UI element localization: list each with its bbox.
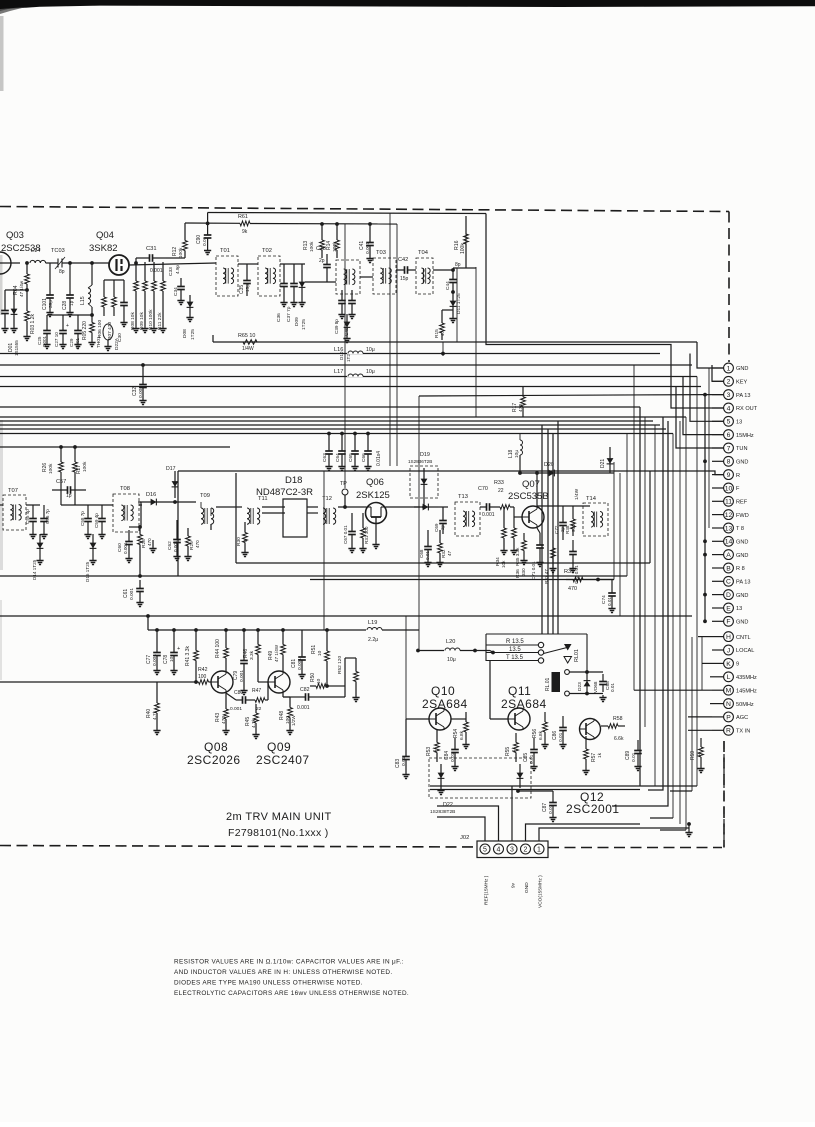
junction (320, 222, 324, 226)
capacitor C59 4p (94, 508, 106, 532)
svg-text:47 1/4w: 47 1/4w (19, 280, 24, 297)
ground (348, 546, 355, 553)
resistor R49 47 1/4W (268, 635, 285, 664)
svg-text:990: 990 (571, 524, 576, 532)
ground (634, 764, 641, 771)
svg-text:2: 2 (727, 379, 731, 386)
svg-text:0.001: 0.001 (129, 588, 135, 600)
svg-text:D15 1T25: D15 1T25 (85, 561, 90, 582)
wire (490, 651, 493, 653)
svg-text:B: B (726, 565, 731, 572)
wire (195, 676, 197, 682)
diode D19b (414, 504, 438, 511)
wire (101, 505, 103, 508)
wire (301, 264, 303, 270)
svg-text:C35: C35 (239, 285, 245, 294)
wire (32, 505, 34, 508)
wire (648, 417, 663, 790)
svg-text:D17: D17 (166, 466, 176, 472)
ground (325, 464, 332, 471)
resistor R10 100k (148, 272, 157, 330)
resistor R40 4.7k (146, 688, 159, 728)
ground (43, 342, 50, 349)
wire (323, 471, 325, 630)
wire (0, 575, 627, 577)
wire (712, 594, 724, 596)
svg-text:R: R (726, 728, 731, 735)
svg-text:10μ: 10μ (447, 657, 456, 663)
svg-text:6.8k: 6.8k (459, 730, 465, 740)
capacitor C85 0.01 (523, 738, 538, 764)
wire (262, 512, 285, 514)
junction (703, 619, 707, 623)
pin 12 FWD (724, 510, 749, 520)
wire (293, 264, 295, 270)
svg-text:1S2838T2B: 1S2838T2B (430, 809, 455, 815)
wire (562, 536, 564, 540)
svg-text:D20: D20 (544, 462, 554, 468)
wire (712, 447, 724, 449)
svg-text:F2798101(No.1xxx ): F2798101(No.1xxx ) (228, 827, 329, 839)
svg-text:L18: L18 (508, 449, 514, 458)
wire (243, 630, 245, 648)
capacitor C27 10 (electrolytic) (54, 322, 69, 347)
capacitor C88 0.01 (599, 674, 615, 692)
wire (166, 257, 185, 259)
wire (139, 504, 142, 506)
dashed border bottom right (548, 847, 722, 849)
wire (563, 472, 614, 474)
svg-text:R 8: R 8 (736, 566, 745, 572)
wire (185, 222, 240, 224)
wire (712, 434, 724, 436)
wire (162, 262, 164, 272)
svg-text:D22: D22 (443, 802, 453, 808)
svg-text:10: 10 (316, 678, 322, 684)
capacitor C25 0.001 (37, 322, 51, 347)
wire (236, 562, 650, 564)
mixer D18 ND487C2-3R (256, 475, 313, 537)
pin 10 F (724, 483, 740, 493)
dashed border lower right vertical (723, 741, 725, 848)
wire (0, 386, 701, 388)
resistor R46 3.3k (243, 635, 260, 664)
ground (240, 688, 247, 695)
wire (704, 395, 706, 622)
resistor R17 470 (512, 387, 525, 418)
svg-text:100k: 100k (309, 241, 315, 252)
ground (520, 558, 527, 565)
wire (207, 213, 209, 224)
inductor L15 (80, 285, 92, 307)
label 2SC2538 (1, 243, 41, 254)
trimmer capacitor TC03 (51, 248, 66, 275)
capacitor C66 (361, 441, 372, 464)
connector J02 pin 3 (507, 844, 517, 854)
wire (0, 446, 230, 448)
svg-text:T 8: T 8 (736, 526, 744, 532)
wire (91, 307, 93, 315)
svg-text:C79: C79 (233, 671, 239, 680)
wire (62, 315, 64, 322)
resistor R35 3.3k (512, 518, 520, 566)
wire (144, 300, 146, 326)
svg-text:R48: R48 (279, 711, 285, 720)
ground (10, 326, 17, 333)
ground (74, 342, 81, 349)
diode D09 1T25 (294, 270, 307, 330)
wire (418, 396, 420, 650)
pin 1 GND (724, 363, 749, 373)
svg-text:+: + (177, 646, 180, 652)
transformer T07 (3, 488, 26, 530)
svg-text:R42: R42 (198, 667, 208, 673)
ground (88, 340, 95, 347)
ground (549, 815, 556, 822)
dashed border bottom left (0, 846, 477, 848)
capacitor C24 0.001 (0, 298, 9, 326)
capacitor C34 (173, 278, 185, 298)
wire (650, 471, 724, 475)
svg-text:0.001: 0.001 (297, 705, 310, 711)
pin E 13 (724, 603, 743, 613)
wire (60, 480, 62, 490)
ground (697, 766, 704, 773)
svg-text:330: 330 (521, 568, 526, 576)
wire (362, 513, 364, 520)
resistor R11 22k (157, 272, 166, 330)
svg-text:C33: C33 (168, 267, 174, 276)
wire (712, 420, 724, 422)
svg-text:T12: T12 (322, 496, 332, 502)
wire (710, 676, 712, 678)
label 2SC2407 (256, 753, 310, 767)
svg-text:1T25: 1T25 (301, 319, 307, 330)
svg-text:C67 0.01: C67 0.01 (343, 525, 348, 544)
svg-text:C90: C90 (196, 235, 202, 244)
junction (703, 553, 707, 557)
svg-text:VD68: VD68 (593, 681, 598, 693)
svg-text:L17: L17 (334, 369, 343, 375)
wire (156, 630, 158, 640)
wire (712, 689, 724, 691)
svg-text:470: 470 (518, 404, 524, 412)
svg-text:1p: 1p (66, 493, 72, 499)
wire (685, 417, 687, 830)
svg-text:+: + (66, 323, 69, 329)
wire (5, 289, 27, 291)
svg-text:D09: D09 (294, 317, 300, 326)
capacitor C32 0.001 (132, 374, 147, 398)
wire (338, 506, 364, 508)
svg-text:TUN: TUN (736, 446, 748, 452)
svg-text:C58 7p: C58 7p (80, 511, 85, 526)
transistor Q09 2SC2407 (268, 671, 290, 693)
svg-text:H: H (726, 634, 731, 641)
resistor R53 1k (426, 733, 439, 762)
wire (712, 716, 724, 718)
capacitor C63 (322, 441, 333, 464)
wire (0, 420, 653, 422)
ground (298, 300, 305, 307)
junction (335, 222, 339, 226)
wire (526, 824, 641, 841)
transformer T14 (583, 496, 608, 536)
resistor R65 10 1/4W (238, 333, 257, 352)
svg-text:TP: TP (340, 481, 347, 487)
capacitor C69 2p (434, 510, 447, 534)
wire (341, 290, 343, 292)
wire (541, 425, 543, 634)
wire (708, 368, 710, 528)
wire (712, 367, 724, 369)
pin L 435MHz (724, 672, 757, 682)
svg-text:12: 12 (725, 512, 733, 519)
svg-text:6.8k: 6.8k (538, 730, 544, 740)
svg-text:GND: GND (736, 593, 748, 599)
ground (372, 542, 379, 549)
ground (36, 558, 43, 565)
wire (430, 789, 640, 791)
svg-text:C44: C44 (445, 281, 451, 290)
wire (0, 364, 692, 366)
title 2m TRV MAIN UNIT (226, 811, 332, 823)
capacitor C79 0.001 (233, 648, 248, 682)
wire (216, 506, 230, 508)
svg-text:0.001: 0.001 (138, 386, 144, 398)
ground (549, 566, 556, 573)
pin 3 PA 13 (724, 390, 751, 400)
svg-text:L14: L14 (31, 248, 40, 254)
junction (353, 432, 357, 436)
wire (562, 506, 564, 512)
resistor R30 0 (236, 525, 249, 550)
wire (326, 672, 328, 686)
wire (0, 428, 666, 430)
wire (712, 729, 724, 731)
ground (280, 300, 287, 307)
wire (258, 681, 268, 683)
svg-text:1k: 1k (597, 752, 603, 758)
svg-text:0.001: 0.001 (42, 335, 47, 347)
wire (212, 335, 214, 342)
wire (60, 490, 62, 505)
svg-text:T09: T09 (200, 493, 210, 499)
diode (in D22) b (517, 764, 524, 788)
ground (125, 556, 132, 563)
svg-text:C80: C80 (234, 690, 243, 696)
label Q03 (6, 230, 24, 241)
wire (344, 686, 346, 697)
ground (66, 310, 73, 317)
svg-text:1/4W: 1/4W (242, 346, 254, 352)
svg-text:2SC2001: 2SC2001 (566, 802, 620, 816)
svg-text:R40: R40 (146, 709, 152, 718)
capacitor C40 4p (344, 292, 356, 336)
label C33 4.9p (168, 265, 180, 276)
wire (113, 280, 115, 288)
wire (208, 213, 486, 214)
wire (511, 786, 513, 841)
wire (611, 580, 613, 584)
resistor R16 100k (454, 216, 468, 262)
ground (89, 558, 96, 565)
wire (613, 462, 615, 580)
wire (456, 268, 458, 342)
junction (703, 393, 707, 397)
wire (283, 264, 285, 270)
dashed border right (728, 212, 730, 363)
capacitor C58 7p (80, 508, 92, 532)
wire (0, 353, 660, 355)
wire (552, 434, 554, 635)
wire (91, 263, 93, 285)
junction (596, 578, 600, 582)
capacitor C37 7p (286, 270, 298, 322)
svg-text:435MHz: 435MHz (736, 675, 757, 681)
wire (0, 376, 697, 378)
svg-text:D08: D08 (182, 329, 188, 338)
svg-text:4.9p: 4.9p (175, 265, 180, 274)
svg-text:1T25: 1T25 (190, 329, 196, 340)
wire (539, 828, 689, 841)
junction (155, 628, 159, 632)
capacitor C35 15p (239, 268, 251, 296)
junction (422, 505, 426, 509)
wire (257, 664, 259, 682)
ground (1, 326, 8, 333)
svg-text:A: A (726, 552, 731, 559)
svg-text:T08: T08 (120, 486, 130, 492)
ground (599, 695, 606, 702)
wire (691, 637, 693, 791)
svg-text:0.01x4: 0.01x4 (376, 451, 382, 466)
svg-text:22: 22 (256, 706, 262, 712)
wire (103, 280, 105, 288)
transistor Q08 2SC2026 (211, 671, 233, 693)
junction (325, 684, 329, 688)
inductor L16 10u (334, 347, 375, 354)
wire (26, 504, 40, 506)
ground (132, 326, 139, 333)
svg-text:C64: C64 (335, 453, 341, 462)
svg-text:R10 100k: R10 100k (148, 309, 154, 330)
wire (225, 693, 227, 700)
ground (338, 312, 355, 343)
svg-text:470: 470 (568, 586, 577, 592)
capacitor C65 (348, 441, 359, 464)
resistor R06 100 (97, 288, 106, 338)
svg-text:AND INDUCTOR VALUES ARE IN H:: AND INDUCTOR VALUES ARE IN H: UNLESS OTH… (174, 969, 392, 976)
pin 8 GND (724, 456, 749, 466)
svg-text:50MHz: 50MHz (736, 702, 754, 708)
pin 2 KEY (724, 376, 748, 386)
svg-text:1/4W: 1/4W (574, 488, 580, 500)
pin H CNTL (724, 632, 751, 642)
label REF(15MHz) (484, 875, 490, 905)
wire (184, 223, 186, 233)
pin 6 15MHz (724, 430, 754, 440)
svg-text:47 1/4W: 47 1/4W (274, 644, 279, 662)
wire (688, 716, 712, 718)
svg-text:T01: T01 (220, 248, 230, 254)
wire (148, 629, 419, 631)
svg-text:R05 220: R05 220 (82, 321, 88, 340)
svg-text:LOCAL: LOCAL (736, 648, 754, 654)
wire (430, 785, 697, 787)
wire (123, 280, 125, 288)
ground (424, 560, 431, 567)
resistor R27 100k (73, 454, 88, 480)
connector J02 box (460, 835, 548, 858)
ground (141, 326, 148, 333)
wire (351, 513, 353, 520)
wire (69, 263, 71, 283)
ground (40, 532, 47, 539)
svg-text:1p: 1p (69, 300, 75, 306)
wire (341, 434, 343, 442)
svg-text:C72: C72 (554, 525, 559, 534)
ground (177, 298, 193, 322)
svg-text:CNTL: CNTL (736, 635, 751, 641)
svg-text:RL.01: RL.01 (545, 677, 551, 691)
capacitor C42 15p (396, 257, 416, 282)
svg-text:3.3k: 3.3k (249, 650, 255, 660)
resistor R28 470 (138, 527, 152, 552)
wire (465, 262, 467, 268)
svg-text:R17: R17 (512, 403, 518, 412)
wire (441, 310, 443, 316)
wire (135, 258, 137, 263)
wire (0, 504, 3, 506)
resistor R39 470 (564, 569, 590, 592)
svg-text:J02: J02 (460, 835, 469, 841)
wire (321, 224, 323, 232)
capacitor C61 0.001 (123, 580, 144, 600)
wire (305, 281, 336, 283)
resistor R13 100k (303, 232, 324, 258)
svg-text:L16: L16 (334, 347, 343, 353)
label Q09 (267, 740, 291, 754)
svg-text:T03: T03 (376, 250, 386, 256)
wire (396, 224, 398, 466)
wire (26, 290, 28, 298)
svg-text:9k: 9k (242, 229, 248, 235)
svg-text:D23: D23 (577, 682, 583, 691)
svg-text:C84: C84 (444, 751, 450, 760)
wire (644, 417, 646, 727)
junction (59, 445, 63, 449)
svg-text:C42: C42 (398, 257, 408, 263)
resistor R36 330 (515, 533, 526, 578)
wire (672, 434, 674, 819)
ground (136, 600, 143, 607)
svg-text:C27 10: C27 10 (54, 332, 59, 347)
capacitor C81 0.001 (291, 645, 306, 672)
scan artifact left edge streaks (0, 16, 4, 680)
wire (690, 354, 724, 422)
junction (172, 628, 176, 632)
ground (298, 672, 305, 679)
wire (46, 315, 48, 322)
svg-text:0.001: 0.001 (365, 242, 371, 254)
junction (451, 268, 455, 272)
svg-text:15p: 15p (400, 276, 409, 282)
wire (0, 433, 673, 435)
resistor R50 10 (310, 673, 332, 689)
svg-text:R07 470: R07 470 (107, 322, 113, 340)
transformer T11 (247, 496, 268, 524)
